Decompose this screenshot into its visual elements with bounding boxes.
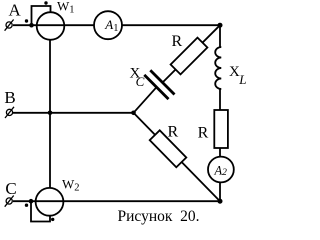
svg-text:A: A xyxy=(9,1,22,20)
svg-text:R: R xyxy=(168,123,179,140)
svg-text:C: C xyxy=(5,179,16,198)
svg-text:R: R xyxy=(198,125,209,142)
svg-text:C: C xyxy=(136,74,145,89)
svg-text:Рисунок 20.: Рисунок 20. xyxy=(118,208,200,225)
svg-text:L: L xyxy=(238,72,246,87)
svg-text:B: B xyxy=(4,88,15,107)
svg-text:R: R xyxy=(172,33,183,50)
